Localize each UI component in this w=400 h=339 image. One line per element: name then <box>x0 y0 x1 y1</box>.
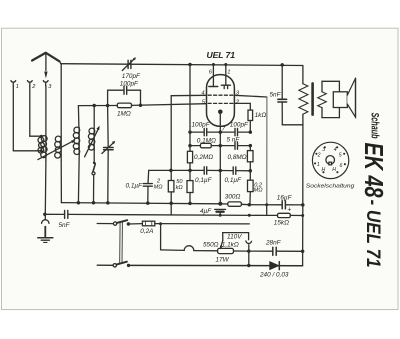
svg-text:5nF: 5nF <box>59 222 71 229</box>
svg-text:100pF: 100pF <box>192 122 211 129</box>
coil L2 antenna secondary <box>41 136 47 215</box>
svg-text:MΩ: MΩ <box>154 185 164 191</box>
link switch mechanical <box>120 222 123 263</box>
grid dashes g5 <box>208 102 233 104</box>
resistor 1k (rail E) <box>248 110 253 132</box>
wire fuse to heater drop <box>159 222 184 250</box>
resistor 2M <box>168 181 174 203</box>
speaker <box>333 78 355 117</box>
svg-text:1: 1 <box>227 70 230 76</box>
svg-text:1: 1 <box>317 162 320 168</box>
row1: capacitor 100pF right <box>220 128 252 135</box>
main bus <box>61 201 222 206</box>
wire B+ row 16uF <box>249 203 304 215</box>
svg-text:240 / 0,03: 240 / 0,03 <box>259 272 289 279</box>
antenna <box>32 53 59 79</box>
switch in L5 leg (band switch) <box>92 150 95 203</box>
row2: capacitor 5nF <box>220 142 252 149</box>
svg-text:UEL 71: UEL 71 <box>207 50 236 60</box>
svg-text:6: 6 <box>340 163 343 169</box>
coil L3 <box>55 136 62 203</box>
wire hop <box>184 246 194 251</box>
coil L1 antenna primary <box>38 135 44 153</box>
svg-text:0,1µF: 0,1µF <box>126 183 144 190</box>
ballast resistor 550/1.1k 17W <box>194 248 249 253</box>
coil L5 (variable) <box>85 106 100 157</box>
tube pins 6,1 top bus dots <box>212 63 215 66</box>
tube UEL71 envelope <box>207 75 235 127</box>
svg-text:100pF: 100pF <box>230 121 249 128</box>
terminal 1 <box>11 81 41 151</box>
capacitor 100pF (grid bridge) <box>108 86 141 105</box>
svg-text:5nF: 5nF <box>270 92 282 99</box>
svg-text:4: 4 <box>334 147 337 153</box>
switch pole 2 <box>97 262 130 267</box>
resistor 15k <box>267 213 305 217</box>
pin 1 lead <box>221 64 230 88</box>
wire antenna drop to coil L2 <box>60 64 62 136</box>
capacitor 170pF (variable, on top wire) <box>122 57 136 70</box>
fuse 0.2A <box>142 221 249 226</box>
wire grid row <box>78 104 206 108</box>
ground symbol <box>38 214 53 242</box>
5nF plate cap rail <box>278 63 303 125</box>
resistor 1M <box>117 103 131 108</box>
svg-text:0,1µF: 0,1µF <box>195 177 213 184</box>
tuning arrow coils L2 L3 <box>38 140 76 160</box>
row4: capacitor 0.1uF right <box>233 167 236 174</box>
svg-text:5: 5 <box>339 152 342 158</box>
svg-text:1,1kΩ: 1,1kΩ <box>222 241 239 248</box>
svg-text:170pF: 170pF <box>122 73 141 80</box>
svg-text:+: + <box>287 206 291 213</box>
svg-text:28nF: 28nF <box>265 240 282 247</box>
svg-text:0,1µF: 0,1µF <box>225 177 243 184</box>
output transformer <box>299 66 308 205</box>
vertical title Schaub EK48 UEL71 <box>359 113 387 268</box>
svg-text:MΩ: MΩ <box>254 187 264 193</box>
pin 4 lead + drop <box>171 95 206 180</box>
diode 240/0.03 <box>270 262 280 270</box>
svg-text:1kΩ: 1kΩ <box>255 112 267 119</box>
svg-text:5 nF: 5 nF <box>227 136 241 143</box>
svg-text:1: 1 <box>16 84 19 90</box>
switch pole 1 <box>97 220 142 226</box>
cathode <box>218 110 223 133</box>
rail C down + 0.1uF leg cap <box>143 132 220 204</box>
capacitor 16uF <box>282 201 285 209</box>
wire top bus <box>60 61 303 66</box>
mains bottom wire <box>129 264 303 266</box>
socket pin labels <box>317 147 343 173</box>
svg-text:300Ω: 300Ω <box>225 193 241 200</box>
selector socket <box>246 241 252 267</box>
pin 2 lead <box>234 103 250 110</box>
plate rail right <box>302 205 304 266</box>
svg-text:4µF: 4µF <box>200 208 212 215</box>
stub bus to earth wire at 2M rail <box>170 203 172 215</box>
row2: resistor 0.1M <box>188 143 222 147</box>
svg-text:0,2MΩ: 0,2MΩ <box>194 154 213 161</box>
svg-text:1MΩ: 1MΩ <box>117 110 131 117</box>
terminal 2 <box>27 81 41 137</box>
svg-text:Sockelschaltung: Sockelschaltung <box>306 183 355 189</box>
svg-text:0,1MΩ: 0,1MΩ <box>197 138 216 145</box>
row4 wire <box>149 169 252 173</box>
svg-text:110V: 110V <box>227 233 242 240</box>
svg-text:100pF: 100pF <box>120 81 139 88</box>
capacitor 28nF <box>249 247 305 255</box>
capacitor 5nF (earth) <box>65 211 68 219</box>
socket diagram circle <box>312 142 348 178</box>
svg-text:15kΩ: 15kΩ <box>274 219 289 226</box>
svg-text:17W: 17W <box>216 257 230 264</box>
svg-text:kΩ: kΩ <box>176 185 184 191</box>
grid dashes g4 <box>208 94 233 96</box>
svg-text:550Ω: 550Ω <box>203 241 219 248</box>
row1: capacitor 100pF left <box>188 128 222 135</box>
svg-text:H: H <box>322 167 326 173</box>
resistor 50k (rail A) <box>187 181 193 204</box>
transformer secondary <box>318 81 340 117</box>
svg-text:EK 48: EK 48 <box>359 143 387 199</box>
capacitor 4uF (electrolytic) <box>215 209 226 216</box>
terminal 3 <box>43 81 48 136</box>
resistor 0.2M (rail E) <box>248 171 254 205</box>
tap arrow + 110V bracket <box>220 233 249 249</box>
variable capacitor (tuning) <box>102 106 115 203</box>
earth wire <box>43 213 267 217</box>
svg-text:3: 3 <box>322 147 325 153</box>
svg-text:0,8MΩ: 0,8MΩ <box>228 154 247 161</box>
resistor 300 ohm <box>220 202 251 207</box>
svg-text:Schaub: Schaub <box>369 113 381 139</box>
transformer core <box>311 83 314 114</box>
svg-text:4: 4 <box>201 91 204 97</box>
svg-text:2: 2 <box>317 152 321 158</box>
svg-text:H: H <box>332 167 336 173</box>
rail A vertical + resistor 0.2M <box>187 63 192 181</box>
pin 3 lead <box>234 95 267 97</box>
svg-text:16µF: 16µF <box>277 195 293 202</box>
coil L4 <box>73 106 79 203</box>
svg-text:0,2A: 0,2A <box>140 228 153 235</box>
svg-text:- UEL 71: - UEL 71 <box>362 200 383 268</box>
resistor 0.8M (rail E) <box>247 146 253 171</box>
row4: capacitor 0.1uF left <box>204 167 207 174</box>
pin 6 lead <box>209 64 218 86</box>
